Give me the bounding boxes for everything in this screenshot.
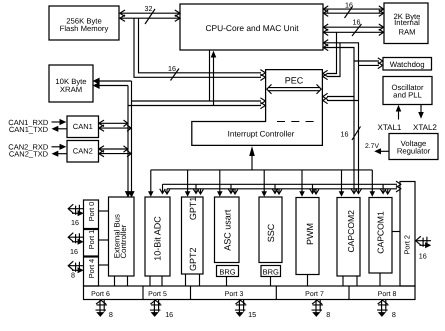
block U20 CAPCOM1 [369, 198, 392, 274]
block P4 Port 4 [84, 257, 99, 286]
svg-text:ASC usart: ASC usart [223, 209, 233, 251]
block U4 Watchdog [383, 58, 432, 71]
wire bus B6 to Watchdog [354, 58, 383, 69]
pin symbol Port 4 external 8 [68, 261, 84, 273]
wire Port0 to EBC [99, 210, 109, 212]
block U19 CAPCOM2 [337, 198, 360, 277]
svg-text:8: 8 [71, 271, 75, 280]
wire drop to GPT [185, 170, 191, 197]
pin symbol Port 5 external 16 [150, 300, 162, 317]
pin CAN1_RXD [8, 118, 66, 127]
svg-text:XTAL2: XTAL2 [413, 123, 437, 132]
block U9 CAN2 [67, 141, 99, 163]
block U17 BRG for SSC [261, 266, 281, 277]
wire SSC BRG to Port 3 [270, 277, 272, 287]
svg-text:Internal: Internal [394, 18, 420, 27]
wire drop to PWM [299, 170, 305, 197]
svg-text:10-Bit ADC: 10-Bit ADC [153, 216, 163, 261]
pin 2.7V supply [365, 143, 389, 154]
pin symbol Port 3 external 15 [235, 300, 247, 317]
block bottom port row [84, 286, 416, 300]
wire drop to CAPCOM2 [339, 170, 345, 197]
svg-text:16: 16 [168, 64, 176, 73]
bus B3 XBUS vertical pair [125, 81, 134, 197]
svg-text:Port 2: Port 2 [402, 235, 411, 254]
svg-text:and PLL: and PLL [393, 91, 422, 100]
svg-text:16: 16 [341, 129, 349, 138]
svg-text:PWM: PWM [305, 223, 315, 245]
svg-text:Flash Memory: Flash Memory [60, 24, 109, 33]
svg-text:CAN2_TXD: CAN2_TXD [9, 150, 49, 159]
svg-text:Port 3: Port 3 [225, 291, 244, 298]
wire CAN2 to XBUS [99, 146, 132, 157]
block U7 10K Byte XRAM [49, 65, 93, 102]
block U3 2K Byte Internal RAM [384, 3, 428, 44]
block P0 Port0 [84, 200, 99, 229]
wire CAPCOM1 to Port 2 [392, 231, 400, 233]
wire drop to ADC [148, 170, 154, 197]
bus B10 lower peripheral distribution pair [163, 181, 401, 192]
pin XTAL1 [378, 105, 402, 132]
wire Port 1 to EBC [99, 239, 109, 241]
pin symbol Port 6 external 8 [96, 300, 108, 317]
wire drop to CAPCOM1 [370, 170, 376, 197]
svg-text:2.7V: 2.7V [365, 143, 379, 150]
dashed boundary between PEC and Interrupt Controller [277, 121, 315, 123]
label 32 and slash for bus B1 [145, 4, 156, 24]
label 16 and slash for bus B5 [352, 18, 362, 37]
wire CAPCOM1 to Port 8 [379, 273, 381, 286]
svg-text:RAM: RAM [398, 28, 415, 37]
svg-text:GPT2: GPT2 [188, 247, 198, 271]
block U16 SSC [259, 197, 282, 263]
svg-text:16: 16 [71, 218, 79, 227]
pin CAN2_RXD [8, 143, 66, 152]
wire bus B6 to PEC right side [323, 93, 359, 103]
svg-text:32: 32 [145, 4, 153, 13]
wire drop to SSC [261, 170, 267, 197]
wire drop to ASC [217, 170, 223, 197]
svg-text:15: 15 [248, 310, 256, 319]
bus B7 CPU-RAM bus down to PEC right side [323, 32, 340, 79]
block P2 Port 2 [400, 182, 415, 287]
svg-text:CAPCOM2: CAPCOM2 [346, 210, 356, 253]
block U18 PWM [296, 198, 319, 275]
svg-text:Port 0: Port 0 [87, 202, 96, 221]
svg-text:16: 16 [70, 247, 78, 256]
pin symbol Port 2 external 16 [416, 236, 432, 248]
wire Interrupt Controller to peripheral interrupt line [249, 146, 255, 170]
pin symbol Port 7 external 8 [312, 300, 324, 317]
bus PEC internal double arrow [267, 84, 321, 94]
svg-text:16: 16 [165, 310, 173, 319]
label 16 and slash for bus B6 [341, 127, 361, 141]
svg-text:Regulator: Regulator [397, 147, 431, 156]
svg-text:CPU-Core and MAC Unit: CPU-Core and MAC Unit [205, 23, 299, 33]
pin XTAL2 [413, 105, 437, 133]
svg-text:8: 8 [326, 310, 330, 319]
svg-text:PEC: PEC [285, 75, 304, 85]
svg-text:Port 4: Port 4 [87, 259, 96, 278]
block U15 BRG for ASC [217, 266, 239, 277]
svg-text:8: 8 [392, 310, 396, 319]
bus B9 upper peripheral distribution line [151, 169, 372, 171]
wire ADC to Port 5 [150, 276, 162, 286]
wire CAPCOM2 to Port 7 and Port 8 [343, 276, 357, 286]
wire ASC BRG to Port 3 [226, 277, 228, 287]
block U1 Flash Memory [49, 6, 119, 40]
block U10 PEC and Interrupt Controller outline [192, 70, 323, 146]
label 16 and slash for bus B4 [345, 1, 354, 18]
svg-text:16: 16 [353, 18, 361, 27]
svg-text:GPT1: GPT1 [188, 197, 198, 221]
svg-text:BRG: BRG [219, 267, 235, 276]
wire pair to GPT [193, 184, 203, 194]
block U13 GPT1 GPT2 [182, 197, 204, 274]
svg-text:Watchdog: Watchdog [390, 60, 425, 69]
block U11 External Bus Controller [109, 197, 135, 276]
wire PWM to Port 7 [307, 275, 309, 287]
pin symbol Port0 external 16 [68, 204, 84, 216]
svg-text:BRG: BRG [263, 267, 279, 276]
wire pair to SSC [272, 184, 282, 194]
wire pair to CAPCOM1 [380, 184, 390, 194]
svg-text:SSC: SSC [266, 223, 276, 242]
wire GPT to Port 3 [186, 274, 200, 286]
wire CAN1 to XBUS [99, 120, 132, 131]
block U8 CAN1 [67, 116, 99, 138]
svg-text:Port 6: Port 6 [91, 291, 110, 298]
wire pair to ASC [228, 184, 238, 194]
bus B4 CPU to RAM upper 16-bit [323, 6, 384, 17]
pin CAN2_TXD [9, 150, 67, 159]
wire XBUS to XRAM [94, 78, 132, 88]
svg-text:Controller: Controller [119, 224, 128, 258]
block U5 Oscillator and PLL [383, 77, 432, 105]
bus B2 CPU down to PEC 16-bit (two verticals) [134, 18, 265, 80]
pin CAN1_TXD [9, 125, 67, 134]
pin symbol Port 8 external 8 [377, 300, 389, 317]
bus B5 CPU to RAM lower 16-bit [323, 24, 384, 36]
wire Port 4 to EBC [99, 264, 109, 266]
svg-text:Interrupt Controller: Interrupt Controller [228, 129, 295, 138]
label 16 and slash for bus B2 [168, 64, 179, 80]
svg-text:CAN1: CAN1 [73, 122, 93, 131]
bus B8 CPU bottom to Interrupt Controller [210, 50, 217, 106]
svg-text:Port 8: Port 8 [378, 291, 397, 298]
svg-text:CAN1_TXD: CAN1_TXD [9, 125, 49, 134]
wire XBUS to PEC [128, 98, 265, 109]
svg-text:8: 8 [109, 310, 113, 319]
wire pair to PWM [310, 184, 319, 194]
svg-text:CAN2: CAN2 [73, 147, 93, 156]
pin symbol Port 1 external 16 [68, 233, 84, 245]
bus B6 CPU right side down to peripheral bus [323, 40, 362, 194]
svg-text:XRAM: XRAM [60, 85, 82, 94]
bus B1 Flash to CPU 32-bit [120, 10, 181, 21]
svg-text:16: 16 [419, 251, 427, 260]
wire pair to ADC [160, 184, 170, 194]
block U6 Voltage Regulator [389, 134, 438, 160]
svg-text:XTAL1: XTAL1 [378, 123, 402, 132]
svg-text:Port 1: Port 1 [87, 230, 96, 249]
block U12 10-Bit ADC [145, 197, 170, 276]
block P1 Port 1 [84, 230, 99, 257]
svg-text:Port 5: Port 5 [148, 291, 167, 298]
block U14 ASC usart [215, 197, 240, 263]
wire EBC to Port 6 [115, 276, 128, 286]
svg-text:CAPCOM1: CAPCOM1 [375, 211, 385, 254]
svg-text:Port 7: Port 7 [305, 291, 324, 298]
block U2 CPU-Core and MAC Unit [180, 4, 323, 50]
